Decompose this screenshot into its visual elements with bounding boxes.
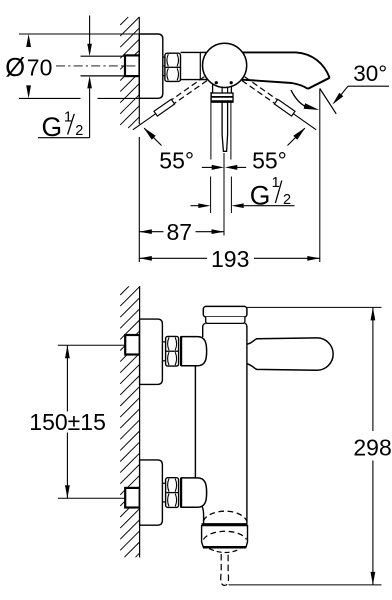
- aerator seam: [202, 523, 248, 526]
- svg-text:55°: 55°: [159, 147, 194, 173]
- water trickle: [221, 554, 229, 585]
- aerator bottom: [203, 546, 246, 549]
- body mid-left edge: [194, 366, 196, 478]
- svg-text:298: 298: [353, 434, 391, 460]
- svg-text:2: 2: [75, 123, 83, 139]
- arrow O70 down: [26, 85, 31, 98]
- dimension 87: [139, 231, 163, 233]
- svg-text:1: 1: [272, 175, 280, 191]
- lower escutcheon (front view): [140, 460, 163, 525]
- pivot dots: [215, 81, 218, 84]
- arrow O70 up: [26, 34, 31, 47]
- supply pipe lines (top view): [81, 55, 126, 57]
- svg-text:150±15: 150±15: [29, 409, 106, 435]
- valve body circle (top view): [203, 43, 247, 87]
- dim line bottom (O70): [19, 97, 81, 99]
- handle swing line 55deg left: [174, 81, 207, 104]
- upper connection centerline: [58, 344, 125, 346]
- upper escutcheon-nut stubs: [162, 341, 165, 343]
- dimension 298: [229, 584, 382, 586]
- svg-text:193: 193: [211, 246, 249, 272]
- 30deg reference line: [320, 89, 336, 114]
- outlet extension lines: [210, 177, 212, 214]
- union nut (top view): [165, 53, 181, 81]
- G1/2 leader and arrows (wall connection): [89, 16, 91, 45]
- body shoulders: [203, 323, 206, 327]
- dim line top (O70): [19, 33, 139, 35]
- svg-text:55°: 55°: [252, 147, 287, 173]
- handle collar (top view): [211, 93, 233, 102]
- G1/2 outlet dimension: [191, 205, 200, 207]
- svg-text:G: G: [42, 112, 63, 142]
- body lower-left transition: [202, 506, 204, 524]
- wall face line (top view): [138, 17, 140, 124]
- handle swing line 55deg right: [242, 81, 275, 104]
- upper escutcheon (front view): [140, 319, 163, 384]
- 55deg leader left: [144, 128, 161, 145]
- aerator cup: [202, 526, 248, 548]
- svg-text:70: 70: [27, 54, 53, 80]
- water screen arc: [209, 549, 240, 553]
- wall hatch (top view): [120, 17, 128, 25]
- spout extension line: [319, 89, 321, 263]
- lower union nut (front view): [166, 478, 179, 508]
- escutcheon (top view): [139, 34, 163, 98]
- upper union nut (front view): [166, 336, 179, 366]
- upper supply pipe (front view): [125, 335, 140, 355]
- svg-text:30°: 30°: [353, 61, 387, 86]
- 30deg leader: [332, 93, 343, 105]
- svg-text:G: G: [250, 180, 271, 210]
- supply pipe in wall (top view): [125, 55, 140, 76]
- svg-text:87: 87: [167, 219, 193, 245]
- lower connection centerline: [58, 497, 125, 499]
- dimension 193: [139, 257, 207, 259]
- wall face line (front view): [139, 286, 141, 557]
- handle flank extension lines: [210, 92, 212, 160]
- lever handle (front view): [247, 338, 333, 370]
- svg-text:2: 2: [283, 192, 291, 208]
- converging arrows at handle axis: [202, 166, 212, 168]
- lower escutcheon-nut stubs: [162, 482, 165, 484]
- handle axis extension line: [223, 153, 225, 236]
- pipe centerline (top view): [56, 65, 168, 67]
- wall hatch (front view): [120, 286, 129, 295]
- flow direction arc: [291, 90, 305, 106]
- body tube (top view): [181, 51, 209, 53]
- hidden ball arc upper: [203, 511, 247, 521]
- svg-text:Ø: Ø: [5, 54, 25, 82]
- body upper-left edge: [202, 326, 204, 337]
- dimension 150+-15: [66, 345, 68, 411]
- 55deg leader right: [288, 128, 305, 145]
- lower supply pipe (front view): [125, 488, 140, 508]
- handle lever rod (top view): [222, 102, 228, 151]
- body neck ring: [206, 317, 245, 323]
- hidden ball arc lower: [204, 531, 247, 539]
- handle neck (top view): [212, 85, 214, 94]
- upper S-union bell: [181, 337, 207, 366]
- spout (top view): [235, 52, 330, 77]
- lower S-union bell: [181, 478, 207, 507]
- body right edge: [246, 326, 248, 523]
- body cap: [247, 306, 382, 308]
- escutcheon-nut stubs (top view): [163, 56, 165, 58]
